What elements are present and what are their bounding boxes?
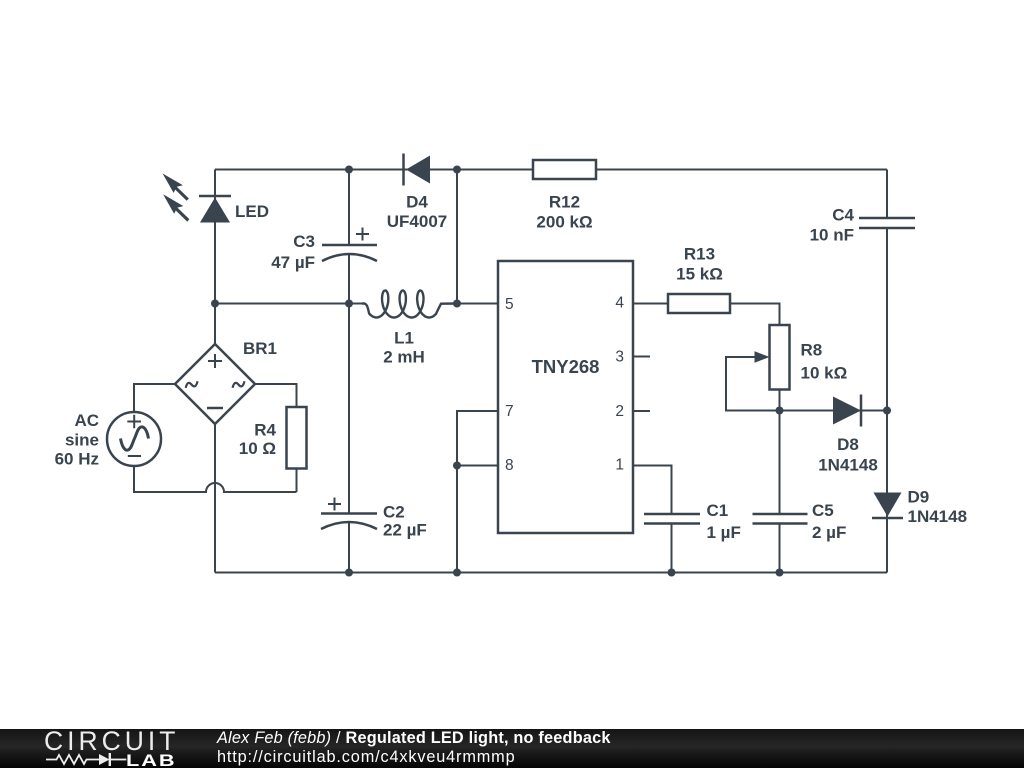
wire C2 bottom lead: [348, 523, 350, 573]
wire left vertical (LED branch): [214, 170, 216, 345]
svg-text:2 µF: 2 µF: [812, 523, 846, 542]
diode D4 cathode bar: [402, 154, 405, 186]
wire C1 bottom lead: [671, 524, 673, 573]
svg-text:AC: AC: [74, 411, 99, 430]
svg-text:1N4148: 1N4148: [908, 507, 968, 526]
wire AC source bottom lead with hop: [134, 466, 297, 492]
svg-text:5: 5: [505, 296, 514, 313]
wire D4 branch vertical: [456, 170, 458, 304]
wire AC source top lead: [134, 384, 175, 412]
CircuitLab logo text CIRCUIT: [44, 726, 179, 757]
wire pin 4 to R13: [633, 303, 668, 305]
svg-text:D8: D8: [837, 435, 859, 454]
svg-text:2 mH: 2 mH: [383, 347, 425, 366]
wire right rail below C4: [886, 228, 888, 573]
bridge BR1 minus sign: [207, 407, 223, 410]
AC source sine wave: [121, 427, 149, 450]
svg-text:UF4007: UF4007: [387, 212, 447, 231]
svg-text:R8: R8: [801, 341, 823, 360]
diode D9 triangle: [874, 493, 902, 517]
svg-text:22 µF: 22 µF: [383, 521, 427, 540]
wire R8 wiper loop: [726, 357, 780, 411]
svg-text:47 µF: 47 µF: [271, 253, 315, 272]
svg-text:R4: R4: [254, 421, 276, 440]
diode D4 triangle: [406, 156, 430, 184]
footer line 2: url: [217, 749, 515, 767]
capacitor C3 plus sign: [356, 228, 369, 241]
junction node dot (779.5,572.5): [776, 569, 784, 577]
AC source minus sign: [128, 455, 141, 457]
resistor R12: [533, 160, 596, 179]
wire D8 horizontal: [780, 410, 888, 412]
svg-text:60 Hz: 60 Hz: [55, 450, 99, 469]
svg-text:200 kΩ: 200 kΩ: [536, 213, 592, 232]
svg-text:1N4148: 1N4148: [818, 455, 878, 474]
LED D1 emission arrow 2: [163, 194, 189, 221]
wire C5 bottom lead: [779, 524, 781, 573]
bridge BR1 right tilde: [232, 381, 246, 388]
wire mid horizontal node to inductor: [215, 303, 362, 305]
svg-text:2: 2: [615, 403, 624, 420]
wire right rail above C4: [886, 170, 888, 219]
resistor R13: [668, 294, 730, 313]
junction node dot (457,465.5): [453, 462, 461, 470]
capacitor C2 top plate: [321, 512, 377, 515]
svg-text:4: 4: [615, 295, 624, 312]
bridge BR1 plus sign: [208, 354, 222, 368]
LED D1 emission arrow 1: [163, 174, 189, 201]
svg-text:10 Ω: 10 Ω: [239, 439, 276, 458]
AC source plus sign: [127, 415, 141, 429]
svg-text:D9: D9: [908, 487, 930, 506]
footer bar: [0, 729, 1024, 768]
svg-text:C4: C4: [832, 206, 854, 225]
CircuitLab logo text LAB: [126, 751, 177, 768]
wire inductor to pin 5: [441, 303, 498, 305]
bridge BR1 left tilde: [185, 381, 199, 388]
wire R8 bottom to C5: [779, 390, 781, 514]
resistor R4: [287, 407, 307, 469]
svg-text:7: 7: [505, 403, 514, 420]
junction node dot (457,169.5): [453, 166, 461, 174]
capacitor C5 plates: [753, 514, 808, 524]
svg-text:1: 1: [615, 457, 624, 474]
LED D1 cathode bar: [199, 195, 231, 198]
svg-text:sine: sine: [65, 431, 99, 450]
svg-text:15 kΩ: 15 kΩ: [676, 264, 723, 283]
diode D9 cathode bar: [872, 517, 903, 520]
capacitor C3 top plate: [322, 244, 377, 247]
wire pin 3 stub: [633, 356, 650, 358]
svg-text:8: 8: [505, 457, 514, 474]
capacitor C3 curved plate: [322, 254, 377, 261]
wire pin 7 to vertical: [457, 411, 498, 573]
junction node dot (887,410.5): [883, 407, 891, 415]
svg-text:10 kΩ: 10 kΩ: [801, 364, 848, 383]
capacitor C2 plus sign: [328, 498, 341, 511]
wire top rail: [215, 169, 887, 171]
footer line 1: author / title: [217, 730, 611, 748]
wire C3 top lead: [348, 170, 350, 246]
diode D8 triangle: [833, 397, 861, 425]
wire R13 to R8 top: [730, 304, 780, 326]
svg-text:BR1: BR1: [243, 339, 277, 358]
junction node dot (215,303.5): [211, 300, 219, 308]
LED D1 triangle: [200, 198, 230, 223]
junction node dot (779.5,410.5): [776, 407, 784, 415]
svg-text:C2: C2: [383, 503, 405, 522]
svg-text:C1: C1: [707, 501, 729, 520]
inductor L1 coil: [362, 291, 457, 318]
capacitor C1 plates: [644, 514, 700, 524]
svg-text:3: 3: [615, 349, 624, 366]
wire R4 bottom lead: [296, 469, 298, 493]
capacitor C4 plates: [859, 218, 915, 228]
svg-text:C5: C5: [812, 501, 834, 520]
svg-text:R12: R12: [549, 193, 580, 212]
CircuitLab logo resistor-diode squiggle: [46, 751, 127, 768]
wire pin 1 to C1: [633, 466, 672, 514]
svg-text:L1: L1: [394, 329, 414, 348]
svg-text:R13: R13: [684, 245, 715, 264]
wire C3 bottom lead: [348, 254, 350, 304]
svg-text:C3: C3: [293, 232, 315, 251]
junction node dot (349,169.5): [345, 166, 353, 174]
junction node dot (349,303.5): [345, 300, 353, 308]
junction node dot (457,303.5): [453, 300, 461, 308]
wire bottom rail: [215, 572, 887, 574]
wire bridge to R4: [255, 384, 297, 407]
junction node dot (671.5,572.5): [668, 569, 676, 577]
wire pin 2 stub: [633, 410, 650, 412]
svg-text:1 µF: 1 µF: [707, 523, 741, 542]
junction node dot (349,572.5): [345, 569, 353, 577]
bridge rectifier BR1 diamond: [175, 344, 255, 424]
AC source V1 circle: [107, 412, 161, 466]
potentiometer R8 wiper arrow: [755, 351, 770, 363]
diode D8 cathode bar: [860, 395, 863, 427]
capacitor C2 curved plate: [321, 522, 377, 529]
potentiometer R8 body: [770, 325, 790, 390]
junction node dot (457,572.5): [453, 569, 461, 577]
wire pin 8 stub: [457, 465, 498, 467]
svg-text:TNY268: TNY268: [532, 356, 600, 377]
wire bridge bottom vertical: [214, 424, 216, 573]
wire C2 vertical top lead: [348, 304, 350, 514]
op-amp U1 TNY268 IC box: [498, 261, 633, 533]
svg-text:LED: LED: [235, 202, 269, 221]
svg-text:10 nF: 10 nF: [810, 226, 854, 245]
svg-text:D4: D4: [406, 193, 428, 212]
